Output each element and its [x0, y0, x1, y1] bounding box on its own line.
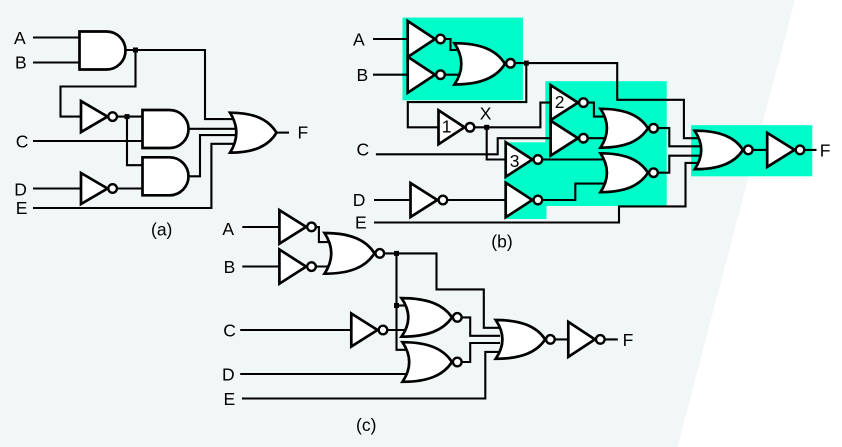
svg-text:(a): (a) — [151, 220, 172, 240]
output inverter (c) — [568, 322, 604, 357]
wire junction down past NOR2 to NOR3 (c) — [397, 253, 408, 349]
svg-text:A: A — [353, 30, 365, 50]
inverter 2 (b) — [551, 85, 588, 120]
wire input E to output NOR (c) — [242, 352, 500, 399]
wire junction into NOR2 top input (c) — [397, 304, 406, 306]
inverter 5 below 3 (b) — [506, 183, 543, 218]
highlight strip around inverters 3 and 5 (b) — [504, 142, 546, 219]
junction dot at NOR1 output (c) — [394, 251, 399, 256]
output inverter 7 (b) — [767, 133, 804, 167]
junction dot at node X (b) — [484, 125, 489, 130]
svg-text:D: D — [222, 365, 235, 385]
svg-text:D: D — [353, 190, 366, 210]
svg-text:B: B — [224, 257, 236, 277]
wire input A (b) — [373, 38, 408, 40]
highlight box around output NOR and inverter (b) — [691, 125, 812, 176]
wire input E to output NOR (b) — [374, 163, 700, 223]
NOR gate upper pair (b) — [601, 109, 658, 148]
inverter for A (c) — [279, 210, 315, 244]
svg-text:1: 1 — [442, 117, 452, 137]
svg-text:B: B — [357, 65, 369, 85]
wire output NOR to inverter (c) — [550, 338, 568, 340]
inverter 1 (a) — [81, 101, 117, 132]
inverter for A (b) — [408, 21, 445, 57]
svg-text:F: F — [623, 330, 634, 350]
wire inverter 1 output to node X to inverter 2 (b) — [470, 103, 551, 128]
wire inverter 2 output to NOR upper (b) — [583, 103, 606, 117]
NOR gate lower pair (b) — [601, 153, 658, 192]
svg-text:C: C — [16, 132, 29, 152]
inverter for C (c) — [351, 314, 387, 347]
white diagonal corner band — [678, 0, 842, 447]
wire input D (b) — [374, 199, 411, 201]
inverter 3 (b) — [506, 142, 543, 177]
junction dot at AND1 output (a) — [133, 48, 138, 53]
output NOR gate (c) — [496, 320, 555, 359]
svg-text:C: C — [223, 320, 236, 340]
wire inverter 4 output to NOR upper (b) — [583, 137, 606, 139]
NOR gate lower middle (c) — [403, 342, 462, 382]
wire input B (a) — [33, 61, 80, 63]
wire input E to OR bottom input (a) — [33, 144, 238, 208]
NOR gate A/B (b) — [455, 43, 515, 84]
wire NOR3 output to output NOR (c) — [457, 343, 500, 362]
wire inverter A output to NOR (b) — [441, 39, 463, 50]
wire input D to NOR3 (c) — [240, 373, 410, 375]
wire AND2 output to OR (a) — [188, 128, 238, 130]
junction dot at NOR2 top input (c) — [394, 303, 399, 308]
wire inverter A output to NOR1 (c) — [312, 227, 331, 242]
wire NOR2 output to output NOR (c) — [457, 317, 500, 335]
wire input B (c) — [242, 265, 279, 267]
highlight box around inverters 2,4 and NOR pair (b) — [545, 81, 666, 206]
junction dot at NOR A/B output (b) — [524, 61, 529, 66]
wire output NOR to inverter 7 (b) — [748, 149, 767, 151]
NOR gate upper middle (c) — [402, 298, 462, 337]
svg-text:(b): (b) — [491, 231, 512, 251]
inverter for B (b) — [408, 57, 445, 93]
wire inverter B output to NOR1 (c) — [312, 265, 331, 267]
wire inverter 1 output (a) — [113, 116, 143, 118]
svg-text:2: 2 — [555, 92, 565, 112]
wire input C (a) — [33, 140, 143, 142]
wire input D (a) — [33, 187, 81, 189]
svg-text:A: A — [222, 219, 234, 239]
inverter for B (c) — [279, 250, 315, 284]
wire inverter 6 output to inverter 5 (b) — [443, 199, 506, 201]
wire feedback junction to inverter 1 input (b) — [408, 63, 527, 127]
svg-text:X: X — [480, 104, 492, 124]
wire inverter C output to NOR2 (c) — [383, 329, 406, 331]
wire NOR A/B output across to output NOR (b) — [511, 63, 701, 138]
AND gate A,B (a) — [80, 32, 126, 70]
inverter 4 below 2 (b) — [551, 121, 588, 156]
inverter 6 for D (b) — [411, 183, 448, 217]
wire AND1 output to OR top input (a) — [126, 50, 239, 119]
NOR gate A/B (c) — [325, 233, 385, 274]
wire AND3 output to OR (a) — [188, 135, 238, 176]
wire junction down to AND3 top input (a) — [127, 117, 143, 166]
wire node X down to inverter 3 (b) — [487, 127, 506, 159]
svg-text:3: 3 — [510, 151, 520, 171]
inverter 1 (b) — [439, 110, 475, 144]
wire NOR lower output to output NOR (b) — [654, 156, 701, 173]
wire inverter 7 output to F (b) — [800, 149, 817, 151]
wire output inverter to F (c) — [600, 338, 618, 340]
svg-text:E: E — [355, 213, 367, 233]
wire inverter 2 output to AND3 (a) — [113, 187, 143, 189]
output NOR gate (b) — [695, 131, 753, 170]
inverter 2 (a) — [81, 173, 117, 204]
svg-text:B: B — [15, 52, 27, 72]
svg-text:(c): (c) — [356, 415, 376, 435]
svg-text:E: E — [16, 198, 28, 218]
wire junction down-left to inverter 1 input (a) — [61, 50, 136, 117]
wire inverter B output to NOR (b) — [441, 74, 463, 76]
AND gate lower (a) — [143, 157, 189, 195]
wire input C to inverter 4 (b) — [376, 138, 551, 154]
OR gate output (a) — [230, 113, 277, 153]
AND gate middle (a) — [143, 110, 189, 148]
svg-text:C: C — [357, 140, 370, 160]
svg-text:D: D — [14, 179, 27, 199]
svg-text:A: A — [14, 28, 26, 48]
wire OR output to F (a) — [276, 132, 289, 134]
wire input A (a) — [33, 36, 80, 38]
wire NOR upper output to output NOR (b) — [654, 128, 701, 146]
svg-text:E: E — [224, 389, 236, 409]
wire NOR1 output across to output NOR (c) — [380, 253, 500, 327]
wire input C to inverter (c) — [240, 329, 351, 331]
wire input A (c) — [242, 226, 279, 228]
wire inverter 3 output to NOR lower (b) — [538, 158, 606, 160]
wire input B (b) — [373, 74, 408, 76]
svg-text:F: F — [298, 123, 309, 143]
highlight box around A/B inverters and NOR (b) — [403, 18, 523, 101]
wire inverter 5 output to NOR lower (b) — [538, 184, 606, 200]
junction dot at inverter 1 output (a) — [125, 114, 130, 119]
svg-text:F: F — [820, 141, 831, 161]
